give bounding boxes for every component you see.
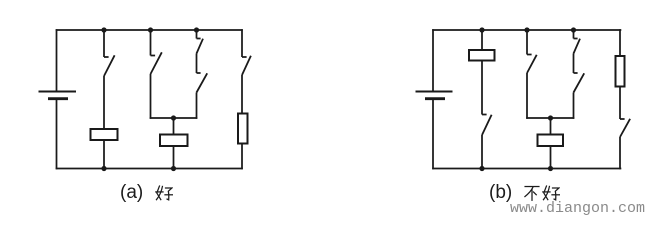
label: caption (b) Chinese character BU (not) <box>523 184 541 202</box>
node: (b) top junction of branch 1 <box>479 27 484 32</box>
relay coil (a) K1 <box>91 129 118 140</box>
relay coil (b) K2 <box>538 135 564 147</box>
switch (b) S1 (normally-open contact) <box>482 115 492 136</box>
relay coil (a) K2 <box>160 135 188 147</box>
wire: (a) right rail lower segment <box>241 144 243 170</box>
node: (b) merge junction <box>548 115 553 120</box>
wire: circuit (b) bottom bus <box>432 168 621 170</box>
switch (b) S4 (lower series contact) <box>574 73 585 93</box>
label: caption (b) Chinese character HAO (good) <box>542 184 560 202</box>
wire: (b) branch 1 middle lead <box>481 61 483 115</box>
wire: (b) branch 1 upper lead <box>481 30 483 50</box>
node: (b) top junction of branch 2 <box>524 27 529 32</box>
node: (a) merge junction <box>171 115 176 120</box>
wire: (b) branch 3 upper lead <box>573 30 575 39</box>
resistor (b) R1 <box>616 56 625 87</box>
wire: (b) coil K2 upper lead <box>550 118 552 135</box>
wire: (a) coil K2 upper lead <box>173 118 175 135</box>
wire: (b) right rail middle segment <box>619 87 621 120</box>
switch (a) S3 (upper series contact) <box>197 39 204 54</box>
relay coil (b) K1 <box>469 50 495 61</box>
node: (b) bottom junction of branch 1 <box>479 166 484 171</box>
wire: (a) branch 3 lower lead <box>196 93 198 119</box>
wire: (b) branch 2 lower lead <box>526 73 528 119</box>
wire: (b) right rail lower segment <box>619 137 621 169</box>
wire: circuit (b) top bus <box>432 29 621 31</box>
switch (b) S2 (normally-open contact) <box>527 55 537 74</box>
switch (a) S4 (lower series contact) <box>197 73 208 93</box>
wire: circuit (b) left rail lower segment <box>432 99 434 170</box>
node: (b) bottom junction of coil K2 <box>548 166 553 171</box>
wire: (b) branch 1 lower lead <box>481 135 483 169</box>
wire: circuit (a) bottom bus <box>56 168 243 170</box>
wire: (a) merge link between branch 2 and branch 3 <box>150 117 198 119</box>
wire: (a) branch 3 upper lead <box>196 30 198 39</box>
wire: (a) coil K2 lower lead <box>173 146 175 169</box>
wire: (a) right rail upper segment <box>241 29 243 57</box>
wire: (b) branch 3 middle lead <box>573 54 575 74</box>
switch (a) S5 (normally-open contact) <box>242 56 251 75</box>
wire: circuit (a) top bus <box>56 29 243 31</box>
wire: (a) right rail middle segment <box>241 75 243 114</box>
node: (a) top junction of branch 1 <box>101 27 106 32</box>
wire: (b) branch 3 lower lead <box>573 93 575 119</box>
node: (a) bottom junction of branch 1 <box>101 166 106 171</box>
wire: (b) coil K2 lower lead <box>550 146 552 169</box>
battery (a) <box>39 92 77 99</box>
wire: circuit (b) left rail upper segment <box>432 29 434 91</box>
wire: (b) branch 2 upper lead <box>526 30 528 55</box>
node: (a) bottom junction of coil K2 <box>171 166 176 171</box>
wire: (b) merge link between branch 2 and branch 3 <box>526 117 574 119</box>
wire: circuit (a) left rail upper segment <box>56 29 58 91</box>
wire: (a) branch 1 middle lead <box>103 76 105 129</box>
node: (b) top junction of branch 3 <box>571 27 576 32</box>
switch (a) S2 (normally-open contact) <box>151 52 162 74</box>
wire: circuit (a) left rail lower segment <box>56 99 58 170</box>
switch (b) S3 (upper series contact) <box>574 39 581 54</box>
wire: (a) branch 1 lower lead <box>103 140 105 169</box>
node: (a) top junction of branch 2 <box>148 27 153 32</box>
wire: (b) right rail upper segment <box>619 29 621 56</box>
wire: (a) branch 2 upper lead <box>150 30 152 56</box>
node: (a) top junction of branch 3 <box>194 27 199 32</box>
wire: (a) branch 2 lower lead <box>150 74 152 119</box>
switch (a) S1 (normally-open contact) <box>104 55 115 76</box>
wire: (a) branch 3 middle lead <box>196 54 198 74</box>
battery (b) <box>416 92 453 99</box>
label: caption (a) <box>120 182 143 204</box>
switch (b) S5 (normally-open contact) <box>620 119 630 137</box>
wire: (a) branch 1 upper lead <box>103 30 105 57</box>
label: watermark www.diangon.com <box>510 200 645 217</box>
label: caption (b) <box>489 182 512 204</box>
label: caption (a) Chinese character HAO (good) <box>155 184 173 202</box>
resistor (a) R1 <box>238 114 248 144</box>
